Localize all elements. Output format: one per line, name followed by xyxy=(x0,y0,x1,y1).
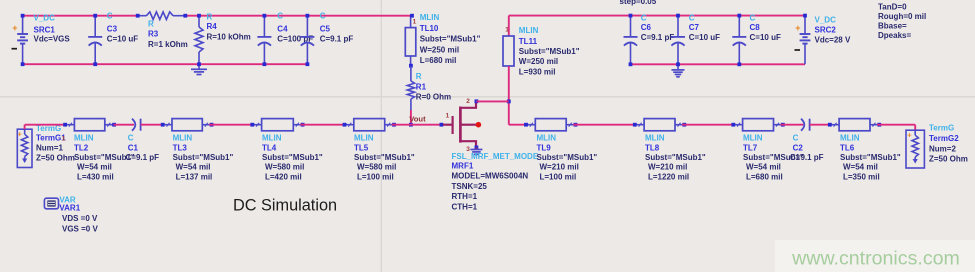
svg-text:L=100 mil: L=100 mil xyxy=(357,172,394,181)
microstrip line TL2 xyxy=(63,119,135,182)
svg-text:MLIN: MLIN xyxy=(840,134,860,143)
svg-text:CTH=1: CTH=1 xyxy=(452,203,478,212)
svg-text:L=430 mil: L=430 mil xyxy=(77,172,114,181)
wire TL6 to TermG2 xyxy=(877,125,915,131)
svg-text:MLIN: MLIN xyxy=(645,134,665,143)
ground at MOSFET source xyxy=(475,147,477,149)
svg-text:Dpeaks=: Dpeaks= xyxy=(878,31,911,40)
svg-text:TL8: TL8 xyxy=(645,143,660,152)
svg-text:C=10 uF: C=10 uF xyxy=(750,33,781,42)
wire TL11 down to drain junction and RF row xyxy=(507,66,528,125)
resistor R3 xyxy=(138,12,188,49)
svg-text:C=10 uF: C=10 uF xyxy=(689,33,720,42)
svg-text:R1: R1 xyxy=(416,83,427,92)
svg-text:Rough=0 mil: Rough=0 mil xyxy=(878,12,926,21)
svg-text:R4: R4 xyxy=(207,22,218,31)
microstrip line TL9 xyxy=(524,119,597,182)
svg-text:FSL_MRF_MET_MODE: FSL_MRF_MET_MODE xyxy=(452,152,539,161)
svg-text:TanD=0: TanD=0 xyxy=(878,3,907,12)
svg-text:W=54 mil: W=54 mil xyxy=(77,163,112,172)
svg-text:TL10: TL10 xyxy=(420,24,439,33)
svg-text:R3: R3 xyxy=(148,29,159,38)
wire TL4 to TL5 xyxy=(300,124,347,126)
svg-text:C7: C7 xyxy=(689,23,700,32)
svg-text:MLIN: MLIN xyxy=(354,134,374,143)
svg-text:+: + xyxy=(18,129,23,138)
svg-text:L=350 mil: L=350 mil xyxy=(843,172,880,181)
svg-text:TL3: TL3 xyxy=(173,143,188,152)
svg-text:W=250 mil: W=250 mil xyxy=(420,46,459,55)
svg-text:C: C xyxy=(277,11,283,20)
svg-text:R=10 kOhm: R=10 kOhm xyxy=(207,33,251,42)
junction dots right bias loop xyxy=(629,14,807,67)
svg-text:Subst="MSub1": Subst="MSub1" xyxy=(537,153,598,162)
svg-text:L=680 mil: L=680 mil xyxy=(746,172,783,181)
svg-text:TL6: TL6 xyxy=(840,143,855,152)
watermark xyxy=(775,240,975,272)
svg-text:TermG2: TermG2 xyxy=(929,134,959,143)
svg-text:SRC1: SRC1 xyxy=(34,25,56,34)
svg-text:C5: C5 xyxy=(320,25,331,34)
svg-text:step=0.05: step=0.05 xyxy=(620,0,657,6)
svg-text:V_DC: V_DC xyxy=(815,15,837,24)
svg-text:C: C xyxy=(750,13,756,22)
svg-text:VGS =0 V: VGS =0 V xyxy=(62,225,98,234)
svg-text:W=210 mil: W=210 mil xyxy=(540,163,579,172)
MOSFET MRF1 labels xyxy=(452,152,539,211)
svg-text:TL7: TL7 xyxy=(743,143,758,152)
svg-text:MLIN: MLIN xyxy=(420,13,440,22)
pin 1 label TL2 xyxy=(62,136,66,143)
resistor R1 xyxy=(407,64,451,110)
wire TL3 to TL4 xyxy=(209,124,254,126)
svg-text:Vdc=28 V: Vdc=28 V xyxy=(815,35,851,44)
wire drain to TL11 column xyxy=(476,100,508,102)
wire bottom rail right loop xyxy=(631,63,806,65)
svg-text:Subst="MSub1": Subst="MSub1" xyxy=(173,153,234,162)
svg-text:TL4: TL4 xyxy=(262,143,277,152)
svg-text:C4: C4 xyxy=(277,25,288,34)
svg-text:R: R xyxy=(416,72,422,81)
svg-text:L=100 mil: L=100 mil xyxy=(540,172,577,181)
wire TL9 to TL8 xyxy=(573,124,637,126)
microstrip line TL3 xyxy=(161,119,234,182)
svg-text:Subst="MSub1": Subst="MSub1" xyxy=(840,153,901,162)
svg-text:V_DC: V_DC xyxy=(34,13,56,22)
svg-text:MLIN: MLIN xyxy=(173,134,193,143)
junction dots left bias loop xyxy=(21,14,414,66)
svg-text:C: C xyxy=(128,134,134,143)
capacitor C2 (series) xyxy=(781,119,833,162)
svg-text:Vdc=VGS: Vdc=VGS xyxy=(34,35,71,44)
svg-text:TL9: TL9 xyxy=(537,143,552,152)
svg-text:+: + xyxy=(12,23,17,33)
svg-text:L=930 mil: L=930 mil xyxy=(519,68,556,77)
svg-text:TL2: TL2 xyxy=(74,143,89,152)
microstrip line TL4 xyxy=(250,119,323,182)
microstrip line TL11 xyxy=(503,16,580,77)
svg-text:VAR1: VAR1 xyxy=(59,204,80,213)
svg-text:R: R xyxy=(207,13,213,22)
svg-text:C2: C2 xyxy=(793,143,804,152)
svg-text:C1: C1 xyxy=(128,143,139,152)
svg-text:C3: C3 xyxy=(107,24,118,33)
svg-text:C=9.1 pF: C=9.1 pF xyxy=(790,153,824,162)
svg-text:Num=1: Num=1 xyxy=(36,143,63,152)
svg-text:C: C xyxy=(107,11,113,20)
capacitor C6 xyxy=(624,13,675,64)
svg-text:TL11: TL11 xyxy=(519,37,538,46)
svg-text:RTH=1: RTH=1 xyxy=(452,192,478,201)
svg-text:1: 1 xyxy=(505,27,509,34)
wire TL8 to TL7 xyxy=(682,124,736,126)
wire R1 to RF row junction xyxy=(409,110,413,127)
svg-text:Subst="MSub1": Subst="MSub1" xyxy=(262,153,323,162)
resistor R4 xyxy=(195,13,251,65)
substrate MSub parameters xyxy=(878,3,926,40)
ground below C7 xyxy=(677,64,679,70)
capacitor C7 xyxy=(671,13,720,64)
variables block VAR1 xyxy=(44,196,98,234)
svg-text:C: C xyxy=(689,13,695,22)
sweep step label (cut off) xyxy=(620,0,657,6)
wire TermG1 to TL2 xyxy=(25,124,66,126)
svg-text:2: 2 xyxy=(466,98,470,105)
svg-text:VDS =0 V: VDS =0 V xyxy=(62,214,98,223)
svg-text:DC Simulation: DC Simulation xyxy=(233,196,337,214)
svg-text:MLIN: MLIN xyxy=(743,134,763,143)
termination TermG1 xyxy=(17,124,75,168)
svg-text:C=9.1 pF: C=9.1 pF xyxy=(320,35,354,44)
svg-text:Num=2: Num=2 xyxy=(929,144,956,153)
svg-text:Subst="MSub1": Subst="MSub1" xyxy=(420,35,481,44)
svg-text:MLIN: MLIN xyxy=(519,26,539,35)
termination TermG2 xyxy=(906,124,968,169)
wire top rail right loop xyxy=(509,15,805,17)
svg-text:W=580 mil: W=580 mil xyxy=(265,163,304,172)
wire top rail left segment xyxy=(23,15,412,17)
svg-text:Vout: Vout xyxy=(409,114,426,123)
microstrip line TL5 xyxy=(343,119,415,182)
svg-text:L=137 mil: L=137 mil xyxy=(176,172,213,181)
wire TL5 to transistor gate xyxy=(392,124,442,126)
capacitor C1 (series) xyxy=(114,119,166,162)
svg-text:W=54 mil: W=54 mil xyxy=(843,163,878,172)
svg-text:R=0 Ohm: R=0 Ohm xyxy=(416,93,451,102)
svg-text:C=9.1 pF: C=9.1 pF xyxy=(126,153,160,162)
svg-text:L=680 mil: L=680 mil xyxy=(420,56,457,65)
svg-text:Z=50 Ohm: Z=50 Ohm xyxy=(36,153,75,162)
microstrip line TL10 xyxy=(405,13,480,66)
node Vout xyxy=(409,114,426,123)
svg-text:+: + xyxy=(795,23,800,33)
svg-text:MODEL=MW6S004N: MODEL=MW6S004N xyxy=(452,172,529,181)
svg-text:C: C xyxy=(793,134,799,143)
svg-text:C: C xyxy=(320,11,326,20)
capacitor C8 xyxy=(732,13,781,64)
ground below R4 xyxy=(198,64,200,69)
svg-text:TL5: TL5 xyxy=(354,143,369,152)
svg-text:W=250 mil: W=250 mil xyxy=(519,57,558,66)
svg-text:C: C xyxy=(641,13,647,22)
svg-text:TSNK=25: TSNK=25 xyxy=(452,182,488,191)
svg-text:MRF1: MRF1 xyxy=(452,161,474,170)
svg-text:MLIN: MLIN xyxy=(537,134,557,143)
DC source SRC2 xyxy=(795,15,851,64)
svg-text:C6: C6 xyxy=(641,23,652,32)
microstrip line TL8 xyxy=(633,119,706,182)
svg-text:C=10 uF: C=10 uF xyxy=(107,34,138,43)
wire bottom rail left loop xyxy=(23,63,308,65)
DC Simulation title xyxy=(233,196,337,214)
svg-text:1: 1 xyxy=(413,18,417,25)
svg-text:W=210 mil: W=210 mil xyxy=(648,163,687,172)
microstrip line TL6 xyxy=(828,119,901,182)
svg-text:Subst="MSub1": Subst="MSub1" xyxy=(519,47,580,56)
svg-text:W=54 mil: W=54 mil xyxy=(176,163,211,172)
svg-text:www.cntronics.com: www.cntronics.com xyxy=(791,248,960,270)
svg-text:Subst="MSub1": Subst="MSub1" xyxy=(354,153,415,162)
svg-text:Subst="MSub1": Subst="MSub1" xyxy=(645,153,706,162)
DC source SRC1 xyxy=(12,13,71,64)
svg-text:MLIN: MLIN xyxy=(74,134,94,143)
svg-text:SRC2: SRC2 xyxy=(815,25,837,34)
svg-text:1: 1 xyxy=(446,112,450,119)
svg-text:1: 1 xyxy=(62,136,66,143)
svg-text:L=1220 mil: L=1220 mil xyxy=(648,172,689,181)
svg-text:W=54 mil: W=54 mil xyxy=(746,163,781,172)
svg-text:MLIN: MLIN xyxy=(262,134,282,143)
capacitor C5 xyxy=(300,11,353,64)
MOSFET MRF1 xyxy=(440,98,482,153)
svg-text:Bbase=: Bbase= xyxy=(878,21,907,30)
capacitor C4 xyxy=(257,11,313,64)
svg-text:TermG: TermG xyxy=(929,124,954,133)
svg-text:Z=50 Ohm: Z=50 Ohm xyxy=(929,155,968,164)
capacitor C3 xyxy=(88,11,138,64)
pin 1 label TL11 xyxy=(505,27,509,34)
pin 1 label TL10 xyxy=(413,18,417,25)
svg-text:R: R xyxy=(148,19,154,28)
microstrip line TL7 xyxy=(731,119,804,182)
svg-text:L=420 mil: L=420 mil xyxy=(265,172,302,181)
svg-text:R=1 kOhm: R=1 kOhm xyxy=(148,40,188,49)
svg-text:W=580 mil: W=580 mil xyxy=(357,163,396,172)
svg-text:+: + xyxy=(907,131,912,140)
svg-text:C8: C8 xyxy=(750,23,761,32)
svg-text:C=9.1 pF: C=9.1 pF xyxy=(641,33,675,42)
